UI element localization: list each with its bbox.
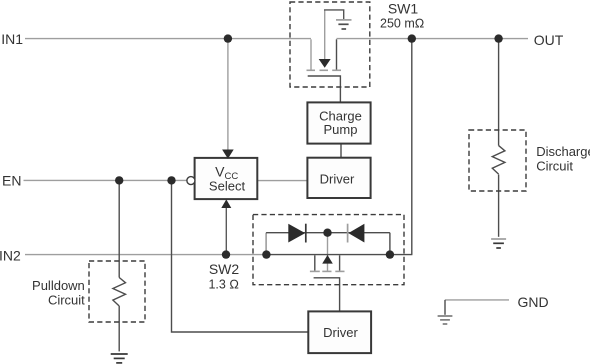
svg-text:SW2: SW2 xyxy=(209,261,240,277)
svg-text:Circuit: Circuit xyxy=(536,159,573,174)
svg-text:EN: EN xyxy=(2,172,21,188)
svg-text:SW1: SW1 xyxy=(388,1,419,17)
svg-text:GND: GND xyxy=(518,294,549,310)
svg-text:Select: Select xyxy=(209,178,246,193)
svg-text:OUT: OUT xyxy=(534,32,564,48)
svg-text:Discharge: Discharge xyxy=(536,144,590,159)
svg-text:IN1: IN1 xyxy=(1,31,23,47)
svg-text:Driver: Driver xyxy=(320,172,355,187)
svg-text:1.3 Ω: 1.3 Ω xyxy=(208,278,238,292)
svg-text:IN2: IN2 xyxy=(0,247,21,263)
svg-text:Circuit: Circuit xyxy=(48,292,85,307)
svg-text:Driver: Driver xyxy=(323,325,358,340)
svg-text:250 mΩ: 250 mΩ xyxy=(380,17,424,31)
svg-text:Pump: Pump xyxy=(324,122,358,137)
svg-text:Pulldown: Pulldown xyxy=(32,278,85,293)
